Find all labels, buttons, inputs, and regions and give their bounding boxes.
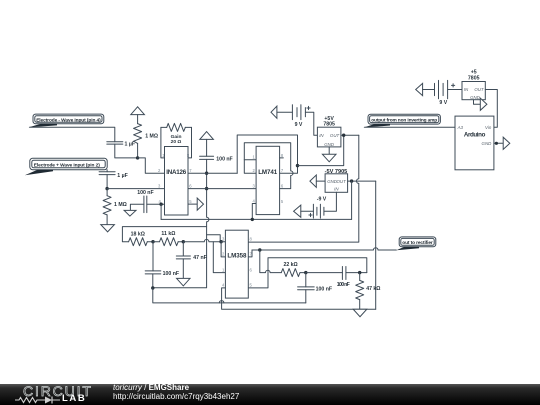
svg-text:OUT: OUT [474, 87, 484, 92]
resistor R3 18 kOhm [129, 231, 153, 245]
wire: junction to INA126 pin 2 [138, 158, 165, 173]
capacitor C4 100nF at INA pin 4 [137, 190, 153, 212]
IC U1 INA126 body [165, 147, 189, 216]
svg-text:18 kΩ: 18 kΩ [131, 231, 145, 237]
wire: V1 staircase branch to LM358 pin3 [207, 235, 221, 242]
wire: 7805b OUT down to Arduino Vin [485, 90, 497, 128]
voltage regulator 7805 (+5V) [317, 116, 341, 147]
ground under R2 [101, 225, 115, 232]
voltage regulator 7805b (+5) [462, 69, 485, 100]
wire: C1 bottom to R1 junction [115, 144, 138, 158]
node flag: Electrode + Wave Input (pin 2) [25, 158, 107, 175]
svg-text:11 kΩ: 11 kΩ [161, 231, 175, 237]
junction 7905 OUT [350, 179, 353, 182]
svg-text:100 nF: 100 nF [163, 271, 179, 277]
wire: LM358 pin 4 down to bottom rail [222, 288, 376, 309]
url line [113, 392, 239, 401]
junction at INA pin 4 [159, 203, 162, 206]
LM741 pin 7 stub to +5V vertical [280, 166, 298, 174]
svg-text:OUT: OUT [337, 179, 347, 184]
junction at Arduino GND [495, 142, 498, 145]
wire: C2 bottom to junction [106, 175, 108, 189]
junction 11k/47n [182, 240, 185, 243]
wire: 7805 OUT +5V [341, 134, 359, 136]
wire: arrow to 7905 GND [316, 180, 325, 182]
capacitor C7 100nF vertical at 22k [298, 273, 332, 303]
battery B2 -9V [309, 197, 327, 219]
svg-text:100 nF: 100 nF [137, 190, 153, 196]
LM741 pin 1 stub [244, 159, 256, 161]
wire: LM358 pin 7 stub to out wire [248, 250, 252, 257]
svg-text:OUT: OUT [330, 133, 340, 138]
voltage regulator 7905 (-5V) [325, 174, 348, 193]
wire: 7805 GND to ground [328, 147, 330, 154]
ground at C4 [124, 210, 136, 216]
ground on bottom rail [353, 309, 367, 317]
junction at R1/C1 [136, 156, 139, 159]
wire V1: C3 down through pin7/pin6 dots, hop over -5V rail, to lower network [153, 159, 209, 287]
svg-text:1 MΩ: 1 MΩ [114, 202, 127, 208]
resistor R1 1 MOhm [134, 124, 158, 158]
junction V1 at pin 6 wire [205, 187, 208, 190]
node arrow at battery B3 [416, 83, 423, 95]
junction LM741 pin4 on -5V rail [251, 218, 254, 221]
junction 18k/11k [151, 240, 154, 243]
svg-text:100 nF: 100 nF [216, 157, 232, 163]
svg-text:INA126: INA126 [166, 169, 187, 176]
svg-text:1 MΩ: 1 MΩ [145, 133, 158, 139]
capacitor C3 100nF [200, 156, 233, 163]
wire: junction to INA126 pin 3 [107, 188, 164, 190]
svg-text:20 Ω: 20 Ω [171, 139, 182, 145]
wire: 22k node to C8 [306, 272, 343, 274]
wire: out to rectifier with hop over -5V drop [252, 248, 396, 250]
wire: arrow to B3 [423, 89, 435, 91]
svg-text:47 kΩ: 47 kΩ [366, 286, 380, 292]
wire: drop from out wire to 22k lead with hop over pin5 loop [260, 250, 282, 273]
svg-text:22 kΩ: 22 kΩ [283, 262, 297, 268]
battery B1 9V [292, 105, 310, 128]
wire: 7905 OUT right [348, 180, 376, 182]
antenna node arrow above C3 [200, 132, 214, 157]
wire: C4 left to ground [130, 204, 144, 210]
junction +5V at 7805 OUT [342, 134, 345, 137]
wire: LM358 pin 1 feedback to pin3 wire [213, 242, 225, 273]
resistor Rg Gain 20 Ohm [161, 123, 192, 145]
wire: C5 bottom down and right along lower bus [153, 288, 306, 303]
svg-text:Vin: Vin [485, 125, 492, 130]
node flag: Electrode - Wave Input (pin 4) [29, 114, 104, 127]
wire: LM358 pin5 loop up and over to 47k node [248, 258, 366, 288]
svg-text:Arduino: Arduino [464, 131, 486, 138]
LM741 pin 8 stub [280, 157, 284, 159]
node arrow at battery B2 [294, 205, 301, 217]
wire: arrow to B2 [301, 210, 314, 212]
svg-text:7805: 7805 [468, 75, 480, 81]
capacitor C1 1uF [107, 141, 135, 147]
svg-text:Electrode - Wave Input (pin 4): Electrode - Wave Input (pin 4) [36, 117, 101, 123]
junction at LM358 pin 3 [219, 240, 222, 243]
svg-text:100 nF: 100 nF [316, 287, 332, 293]
wire: flag to Arduino A3 [365, 126, 456, 128]
junction +5V at LM741 pin 7 [296, 164, 299, 167]
wire: C4 right to INA126 pin 4 [147, 203, 165, 205]
wire: LM358 pin 3 stub [221, 241, 225, 243]
svg-text:LM741: LM741 [258, 169, 278, 176]
wire: INA126 pin 5 stub [188, 203, 197, 205]
wire: +5V down to LM358 pin 8, hop over 7905 OUT wire [248, 135, 358, 242]
wire: B1 plus to 7805 IN [305, 112, 317, 135]
footer bar [0, 384, 540, 405]
wire: LM358 pin 2 stub up to pin3 node [221, 242, 225, 257]
wire: B2 to 7905 IN [324, 192, 337, 211]
svg-text:GND: GND [470, 95, 481, 100]
resistor R2 1 MOhm [103, 189, 127, 225]
svg-text:47 nF: 47 nF [193, 255, 207, 261]
wire: lower bus hop over pin4 drop [219, 301, 224, 303]
module U4 Arduino [455, 116, 494, 170]
resistor R6 47 kOhm [356, 273, 381, 310]
svg-text:GND: GND [482, 141, 493, 146]
svg-text:9 V: 9 V [295, 122, 303, 128]
junction V1 at pin 7 wire [205, 172, 208, 175]
svg-text:Electrode + Wave Input (pin 2): Electrode + Wave Input (pin 2) [34, 163, 100, 169]
svg-text:-9 V: -9 V [317, 197, 327, 203]
wire: INA126 pin 6 to LM741 pin 3 [188, 188, 256, 190]
svg-text:100 nF: 100 nF [337, 282, 350, 288]
svg-text:1 µF: 1 µF [125, 141, 135, 147]
wire: -5V rail [161, 218, 352, 220]
LM741 pin 4 stub down to -5V rail [252, 204, 256, 220]
node arrow at INA pin 5 [197, 198, 203, 210]
antenna node arrow above R1 [131, 107, 145, 124]
capacitor C2 1uF [99, 172, 128, 179]
wire: 7905 OUT down to -5V rail [351, 181, 353, 219]
wire: V1 branch left to 18k input [122, 227, 206, 242]
wire: 11k junction to LM358 pin3 with hop over V1 [183, 239, 221, 241]
gain resistor loop collar [161, 127, 192, 157]
junction out wire / 22k drop [258, 248, 261, 251]
wire: flag A to C1 and down [30, 127, 115, 141]
CircuitLab logo text [23, 383, 93, 399]
resistor R4 11 kOhm [153, 231, 183, 246]
node flag: output from non inverting amp [363, 114, 440, 127]
wire: 7805b GND to node arrow [474, 100, 481, 105]
svg-text:GND: GND [324, 142, 335, 147]
capacitor C5 100nF below 18k/11k junction [145, 242, 179, 288]
wire: flag B right edge down to C2 [106, 170, 108, 172]
capacitor C8 100nF horizontal [337, 267, 350, 289]
junction at C2/R2/pin3 [105, 187, 108, 190]
svg-text:out to rectifier: out to rectifier [402, 240, 433, 246]
wire: arrow to B1 [277, 111, 293, 113]
wire: Arduino GND to node arrow [494, 142, 503, 144]
IC U3 LM358 body [225, 230, 248, 298]
junction C5 bottom [151, 286, 154, 289]
ground at 7805 [322, 154, 336, 162]
LM741 outer loop: V+ net from INA pin7 wire over top to +5V [237, 135, 297, 173]
LM741 feedback loop pin2 to pin6 with hop over pin7 stub [244, 143, 293, 189]
wire: B3 to 7805b IN [448, 89, 462, 91]
svg-text:A3: A3 [457, 125, 464, 130]
junction 47k top [358, 271, 361, 274]
ground under 47nF [177, 278, 190, 286]
node arrow at 7905 GND [310, 175, 316, 187]
logo resistor-diode mark [14, 396, 64, 404]
wire: INA pin4 junction down to -5V rail [160, 204, 162, 219]
svg-text:1 µF: 1 µF [117, 173, 127, 179]
resistor R5 22 kOhm [281, 262, 306, 277]
IC U2 LM741 body [256, 146, 280, 214]
wire: -5V branch down right side, hop over out-to-rectifier wire [375, 181, 377, 309]
capacitor C6 47nF [176, 242, 207, 279]
battery B3 9V [435, 80, 455, 106]
svg-text:Gain: Gain [171, 134, 182, 140]
node arrow at battery B1 [271, 106, 277, 118]
node flag: out to rectifier [396, 237, 436, 250]
wire: +5V branch to 7805 output [298, 135, 344, 165]
svg-text:LM358: LM358 [227, 253, 247, 260]
attribution line [113, 383, 189, 392]
junction 22k / C7 [304, 271, 307, 274]
wire: INA126 pin 7 to LM741 pin 2 net [188, 172, 237, 174]
node arrow at Arduino GND [503, 137, 510, 149]
wire: C8 to 47k node [346, 272, 367, 274]
svg-text:output from non inverting amp: output from non inverting amp [371, 118, 437, 124]
svg-text:9 V: 9 V [439, 100, 447, 106]
node arrow at 7805b GND [480, 98, 487, 110]
